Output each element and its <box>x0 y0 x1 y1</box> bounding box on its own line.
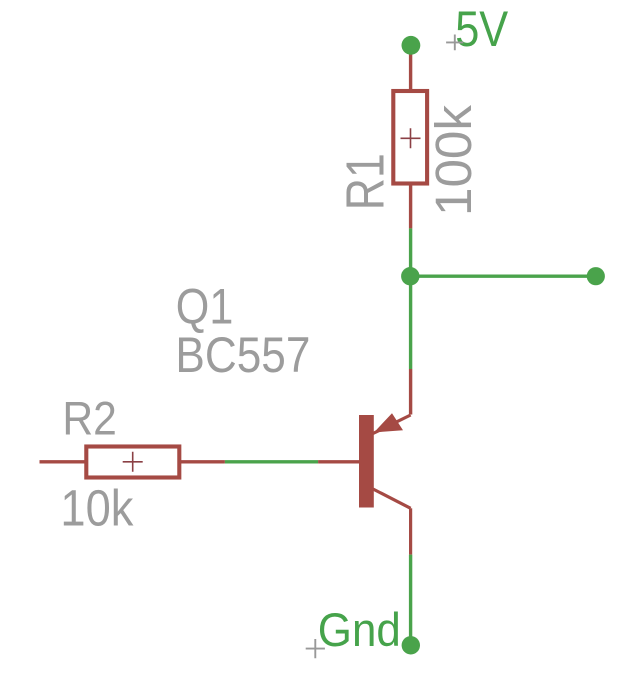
wire: net emitter to Gnd (green) <box>409 555 412 645</box>
wire: 5V supply pin to R1 top <box>409 45 412 91</box>
transistor Q1 base bar <box>359 415 374 508</box>
wire: horizontal net junction to right node (green) <box>411 275 596 278</box>
ground origin cross (gray) <box>306 639 325 658</box>
wire: R2 left pin stub (red) <box>40 460 86 463</box>
wire: R2 right pin (red) <box>181 460 225 463</box>
node dot: 5V supply <box>402 36 421 55</box>
wire: transistor top pin vertical (red) <box>409 369 412 415</box>
resistor R2 body <box>86 447 179 478</box>
node dot: junction at collector/R1 <box>401 267 419 285</box>
svg-text:100k: 100k <box>425 105 482 216</box>
resistor R1 origin cross <box>401 128 421 148</box>
wire: transistor top pin diagonal to base bar (red) <box>373 415 411 434</box>
node dot: Gnd <box>402 636 420 654</box>
wire: vertical net junction down to transistor collector pin (green) <box>409 276 412 369</box>
resistor R1 body <box>393 91 427 184</box>
svg-text:BC557: BC557 <box>175 326 310 383</box>
svg-text:Gnd: Gnd <box>318 603 401 656</box>
resistor R2 origin cross <box>123 452 143 472</box>
wire: base net (green) <box>225 460 318 463</box>
wire: transistor base pin (red) <box>318 460 360 463</box>
svg-text:5V: 5V <box>455 1 509 57</box>
wire: transistor emitter pin vertical (red) <box>409 508 412 554</box>
transistor Q1 emitter arrow (PNP) <box>374 413 403 432</box>
supply 5V origin cross (gray) <box>446 35 463 51</box>
svg-text:R1: R1 <box>337 153 396 210</box>
svg-text:R2: R2 <box>62 392 117 445</box>
node dot: right output <box>587 267 605 285</box>
wire: transistor bottom pin diagonal from base bar (red) <box>373 489 411 508</box>
wire: R1 bottom pin (red) <box>409 183 412 228</box>
wire: net from R1 to junction (green) <box>409 228 412 276</box>
svg-text:10k: 10k <box>60 480 133 537</box>
